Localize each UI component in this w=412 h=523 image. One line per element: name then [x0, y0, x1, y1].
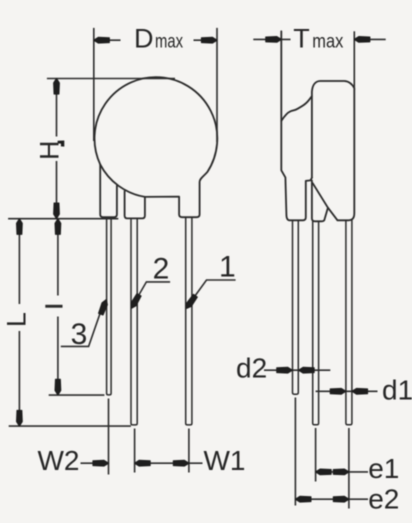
H bottom arrowhead [54, 203, 60, 219]
l top arrowhead [55, 219, 61, 235]
label l (rotated, appears as dash) [45, 305, 62, 308]
svg-text:H: H [35, 140, 65, 160]
disc body (front view) [94, 77, 217, 217]
d2 dimension line [264, 369, 330, 371]
leader arrowhead for 3 [99, 300, 108, 315]
leader line for 1 [190, 280, 236, 304]
left lead stub [100, 164, 117, 217]
disc bottom diagonal edge [313, 183, 338, 220]
d1 left arrowhead [330, 389, 346, 395]
middle stub (side view) [312, 181, 328, 222]
Dmax right extension line [216, 28, 218, 142]
svg-text:e2: e2 [368, 484, 399, 515]
svg-text:d2: d2 [236, 352, 267, 383]
W1 left extension line below lead 2 [134, 429, 136, 473]
front disc profile (top and right edge) [312, 81, 354, 220]
lead 1 (front view, right lead) [186, 218, 192, 425]
lead 2 (front view, middle lead) [131, 219, 137, 425]
svg-text:2: 2 [153, 252, 170, 285]
side lead A (back, short) [293, 220, 299, 394]
extension line below side lead A [294, 398, 296, 506]
lead tip reference line [9, 425, 131, 427]
side lead B (middle) [313, 221, 319, 424]
d2 right arrowhead [299, 367, 315, 373]
W2 extension line below lead 3 [108, 399, 110, 475]
e1 dimension line [316, 471, 368, 473]
Dmax dimension line left tail [94, 39, 121, 41]
lead 3 (front view, short left lead) [107, 218, 112, 395]
leader arrowhead for 1 [186, 294, 197, 308]
W1 left arrowhead [135, 460, 151, 466]
svg-text:1: 1 [219, 251, 236, 284]
l bottom arrowhead [55, 379, 61, 395]
e2 dimension line [295, 498, 368, 500]
e2 left arrowhead [295, 496, 311, 502]
svg-text:W1: W1 [204, 445, 246, 476]
L dimension line (gap for text) [18, 219, 20, 426]
d2 left arrowhead [277, 367, 293, 373]
back wafer top curve [281, 96, 312, 121]
Tmax dimension line right tail [354, 38, 385, 40]
Dmax left arrowhead [94, 37, 110, 43]
Dmax right arrowhead [202, 37, 218, 43]
Dmax left extension line [93, 28, 95, 141]
extension line below side lead C [348, 428, 350, 509]
side lead C (front/right) [346, 220, 352, 424]
e1 left arrowhead [316, 469, 332, 475]
extension line below side lead B [315, 428, 317, 482]
L bottom arrowhead [17, 411, 23, 427]
d1 right arrowhead [352, 389, 368, 395]
Dmax dimension line right tail [194, 39, 218, 41]
L top arrowhead [17, 219, 23, 235]
middle lead stub [125, 191, 145, 218]
l bottom extension line [49, 394, 105, 396]
Tmax dimension line left tail [253, 38, 290, 40]
svg-text:d1: d1 [382, 374, 412, 405]
W1 right arrowhead [173, 460, 189, 466]
W1 dimension line [135, 462, 203, 464]
leader arrowhead for 2 [131, 294, 141, 309]
Tmax right extension line [353, 31, 355, 90]
H top extension line [47, 78, 175, 80]
seating reference line [8, 218, 118, 220]
svg-text:L: L [2, 312, 32, 327]
e2 right arrowhead [333, 496, 349, 502]
H dimension line (gap for text) [56, 79, 58, 219]
svg-text:Dmax: Dmax [134, 23, 183, 53]
H top arrowhead [54, 79, 60, 95]
leader line for 3 [61, 306, 103, 347]
svg-text:e1: e1 [368, 453, 399, 484]
svg-text:W2: W2 [38, 445, 80, 476]
Tmax right arrowhead (inward) [354, 37, 370, 43]
W1 right extension line below lead 1 [188, 429, 190, 473]
leader line for 2 [135, 282, 171, 303]
l dimension line (gap for text) [57, 219, 59, 395]
Tmax left arrowhead (inward) [266, 37, 282, 43]
e1 right arrowhead [333, 469, 349, 475]
d1 dimension line [316, 390, 378, 392]
side body left edge + back wafer outline [281, 31, 312, 220]
W2 dimension line [81, 462, 109, 464]
W2 arrowhead [93, 460, 109, 466]
svg-text:Tmax: Tmax [293, 23, 343, 53]
H prime tick mark [58, 141, 65, 147]
